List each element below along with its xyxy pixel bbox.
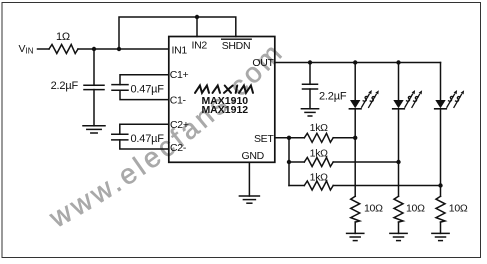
- wire VIN lead-in: [38, 48, 50, 50]
- wire row2 lead: [289, 161, 304, 163]
- ground IC: [239, 196, 259, 203]
- wire C1-: [120, 90, 169, 99]
- ground column1: [347, 233, 364, 240]
- svg-text:GND: GND: [242, 150, 265, 162]
- svg-text:C2-: C2-: [170, 142, 187, 154]
- wire OUT rail: [275, 62, 441, 64]
- watermark www.elecfans.com: [44, 35, 290, 233]
- svg-text:OUT: OUT: [252, 57, 274, 69]
- svg-text:2.2µF: 2.2µF: [319, 91, 347, 103]
- wire C1+: [120, 75, 169, 85]
- resistor R2 1k row2: [304, 158, 333, 167]
- node dot row2 LED2: [396, 160, 400, 164]
- resistor R5 10ohm column2: [394, 196, 403, 222]
- svg-text:0.47µF: 0.47µF: [131, 84, 165, 96]
- wire LED2 column top: [398, 63, 400, 101]
- wire row3 lead: [289, 185, 304, 187]
- ground column2: [390, 233, 407, 240]
- resistor R1 1k row1: [304, 133, 333, 142]
- svg-text:0.47µF: 0.47µF: [131, 133, 165, 145]
- svg-text:V: V: [19, 43, 26, 55]
- svg-text:MAX1912: MAX1912: [201, 104, 248, 116]
- wire LED3 to R network: [440, 109, 442, 197]
- LED D1 arrows: [362, 90, 379, 107]
- svg-text:IN: IN: [26, 47, 34, 56]
- svg-text:1kΩ: 1kΩ: [310, 172, 328, 184]
- LED D3 arrows: [447, 90, 464, 107]
- wire output cap to ground: [309, 89, 311, 109]
- wire resistor to IN1: [78, 48, 169, 50]
- ground output cap: [301, 109, 318, 116]
- node dot OUT cap: [308, 60, 312, 64]
- wire cap to ground: [93, 90, 95, 126]
- wire GND pin: [248, 162, 250, 196]
- svg-text:10Ω: 10Ω: [364, 203, 383, 215]
- svg-text:C2+: C2+: [170, 119, 189, 131]
- resistor R4 10ohm column1: [351, 196, 360, 222]
- svg-text:IN2: IN2: [192, 39, 208, 51]
- capacitor C1 0.47uF: [112, 85, 128, 91]
- node junction dot B: [117, 47, 121, 51]
- wire row3 to LED3 column: [333, 185, 440, 187]
- wire left rail to input cap: [93, 49, 95, 85]
- node dot on top rail: [195, 15, 199, 19]
- svg-text:10Ω: 10Ω: [406, 203, 425, 215]
- svg-text:C1-: C1-: [170, 95, 187, 107]
- svg-text:IN1: IN1: [172, 45, 188, 57]
- ground input: [83, 126, 105, 133]
- wire R5 to ground: [398, 222, 400, 233]
- wire IN2 drop: [196, 17, 198, 37]
- wire OUT cap drop: [309, 63, 311, 85]
- wire SET row1 lead: [275, 137, 305, 139]
- node VIN label: [19, 43, 34, 56]
- svg-text:2.2µF: 2.2µF: [51, 80, 79, 92]
- svg-text:1Ω: 1Ω: [56, 31, 70, 43]
- wire C2+: [120, 124, 169, 134]
- resistor R6 10ohm column3: [436, 196, 445, 222]
- resistor R 1ohm: [49, 45, 78, 54]
- LED D3: [435, 100, 447, 109]
- node junction dot A: [92, 47, 96, 51]
- svg-text:SET: SET: [254, 133, 274, 145]
- node dot SET left rail row1: [287, 136, 291, 140]
- logo MAXIM: [195, 86, 253, 93]
- node dot LED2 top: [396, 60, 400, 64]
- capacitor 2.2uF output: [303, 84, 318, 89]
- wire row1 to LED1 column: [333, 137, 355, 139]
- pin label SHDN with overline: [222, 39, 252, 52]
- svg-text:1kΩ: 1kΩ: [310, 148, 328, 160]
- capacitor 2.2uF input: [84, 85, 104, 89]
- resistor R3 1k row3: [304, 181, 333, 190]
- svg-text:10Ω: 10Ω: [449, 203, 468, 215]
- svg-text:SHDN: SHDN: [222, 40, 251, 52]
- wire SET left rail: [288, 138, 290, 186]
- ground column3: [432, 233, 449, 240]
- wire LED1 to R network: [354, 109, 356, 197]
- node dot left rail row2: [287, 160, 291, 164]
- node dot row1 LED1: [353, 136, 357, 140]
- svg-text:1kΩ: 1kΩ: [310, 122, 328, 134]
- LED D1: [349, 100, 361, 109]
- wire LED1 column top: [354, 63, 356, 101]
- wire R6 to ground: [440, 222, 442, 233]
- wire C2-: [120, 140, 169, 149]
- node dot LED1 top: [353, 60, 357, 64]
- capacitor C2 0.47uF: [112, 134, 128, 140]
- wire top rail to IN2 and SHDN: [119, 17, 236, 49]
- wire R4 to ground: [354, 222, 356, 233]
- wire LED3 column top: [440, 63, 442, 101]
- node dot row3 LED3: [438, 183, 442, 187]
- svg-text:C1+: C1+: [170, 69, 189, 81]
- wire row2 to LED2 column: [333, 161, 398, 163]
- wire LED2 to R network: [398, 109, 400, 197]
- op-amp U1 MAX1910/MAX1912 box: [169, 37, 275, 163]
- LED D2 arrows: [405, 90, 422, 107]
- LED D2: [393, 100, 405, 109]
